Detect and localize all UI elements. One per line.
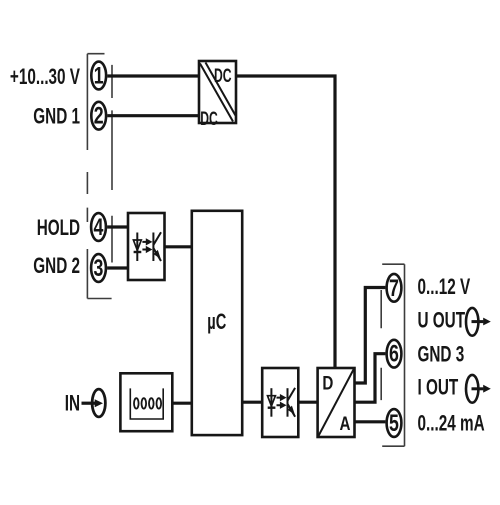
svg-text:+10...30 V: +10...30 V (10, 65, 80, 90)
input IN arrow (82, 402, 96, 405)
terminal strip guide line left inner (111, 65, 113, 263)
svg-text:IN: IN (65, 392, 80, 417)
terminal 5 (387, 409, 402, 437)
terminal 7 (387, 274, 402, 302)
svg-text:A: A (340, 412, 351, 434)
terminal 3 (91, 254, 106, 282)
svg-text:DC: DC (200, 109, 218, 129)
terminal strip bracket right (bottom tick) (382, 445, 404, 447)
optocoupler U3 symbol (268, 388, 296, 417)
terminal strip bracket left (vertical segments) (86, 54, 88, 299)
svg-text:µC: µC (207, 310, 226, 335)
svg-text:HOLD: HOLD (37, 216, 80, 241)
wire D/A to terminal 6 (355, 354, 386, 403)
DIP switch S1 box (120, 373, 172, 431)
DC/DC converter U1 box (199, 61, 236, 123)
wire DIP switch to uC (172, 402, 192, 405)
svg-text:5: 5 (389, 411, 399, 437)
output I OUT ellipse (466, 375, 478, 403)
DC/DC converter diagonal lines (200, 63, 236, 122)
wire D/A to terminal 7 (355, 288, 386, 384)
terminal strip bracket left (bottom tick) (87, 298, 111, 300)
output U OUT ellipse (466, 308, 478, 336)
wire terminal 3 to optocoupler U2 (107, 266, 128, 269)
svg-text:3: 3 (94, 256, 104, 282)
terminal strip bracket right (vertical) (404, 264, 406, 446)
svg-text:1: 1 (94, 63, 104, 89)
optocoupler U3 box (262, 368, 298, 437)
svg-text:0...12 V: 0...12 V (418, 275, 471, 300)
wire terminal 1 to DC/DC (107, 74, 199, 77)
svg-text:I OUT: I OUT (418, 376, 459, 401)
input IN ellipse (92, 389, 105, 417)
D/A converter U4 box (318, 368, 355, 437)
output I OUT arrow (472, 387, 484, 390)
optocoupler U2 box (128, 213, 165, 280)
svg-text:4: 4 (94, 215, 104, 241)
output U OUT arrow (472, 320, 484, 323)
terminal 1 (91, 62, 106, 90)
terminal strip bracket left (top tick) (87, 53, 104, 55)
wire terminal 2 to DC/DC (107, 114, 199, 117)
wire D/A to terminal 5 (355, 420, 386, 423)
optocoupler U2 symbol (133, 232, 161, 261)
svg-text:GND 3: GND 3 (418, 343, 465, 368)
output I OUT arrowhead (483, 385, 491, 393)
wire DC/DC output to D/A top (236, 76, 335, 368)
svg-text:GND 2: GND 2 (33, 254, 80, 279)
svg-text:GND 1: GND 1 (33, 105, 80, 130)
input IN arrowhead (95, 399, 103, 407)
svg-text:DC: DC (214, 67, 232, 87)
terminal 6 (387, 340, 402, 368)
svg-text:6: 6 (389, 341, 399, 367)
wire optocoupler U2 to uC (165, 245, 192, 248)
D/A converter diagonal (318, 369, 353, 436)
svg-text:7: 7 (389, 275, 399, 301)
wire terminal 4 to optocoupler U2 (107, 225, 128, 228)
svg-text:D: D (322, 372, 333, 394)
terminal strip guide line right inner (380, 290, 382, 400)
svg-text:2: 2 (94, 103, 104, 129)
wire optocoupler U3 to D/A (298, 401, 317, 404)
terminal strip bracket right (top tick) (382, 263, 404, 265)
wire uC to optocoupler U3 (242, 401, 262, 404)
DIP switch bracket (130, 388, 163, 419)
terminal 4 (91, 213, 106, 241)
output U OUT arrowhead (483, 318, 491, 326)
terminal 2 (91, 102, 106, 130)
DIP switch positions 0000 (134, 398, 161, 408)
microcontroller uC box (192, 211, 242, 435)
svg-text:U OUT: U OUT (418, 309, 466, 334)
svg-text:0...24 mA: 0...24 mA (418, 412, 485, 437)
